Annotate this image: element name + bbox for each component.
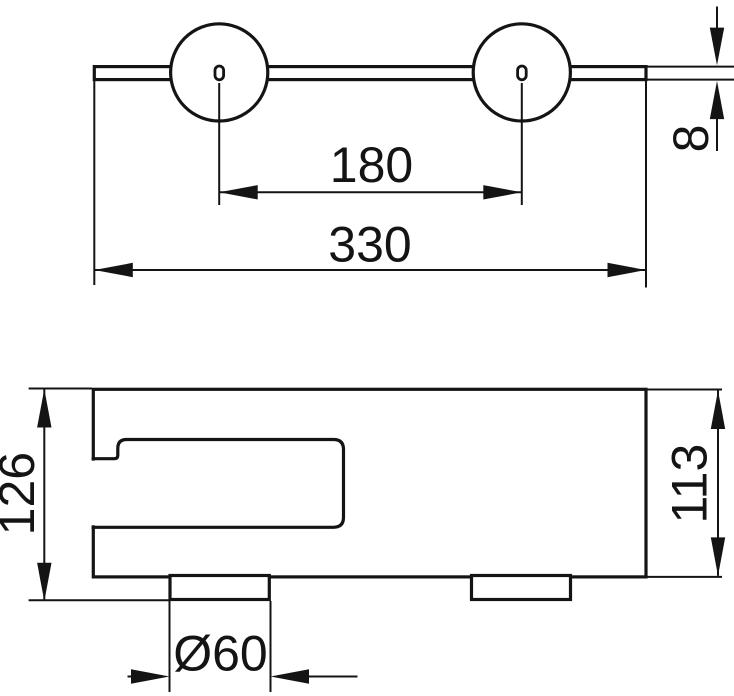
svg-text:330: 330 xyxy=(328,216,411,272)
svg-text:113: 113 xyxy=(662,444,718,524)
svg-text:8: 8 xyxy=(663,125,719,153)
svg-text:180: 180 xyxy=(330,137,413,193)
svg-text:126: 126 xyxy=(0,452,45,535)
svg-text:Ø60: Ø60 xyxy=(173,626,268,682)
